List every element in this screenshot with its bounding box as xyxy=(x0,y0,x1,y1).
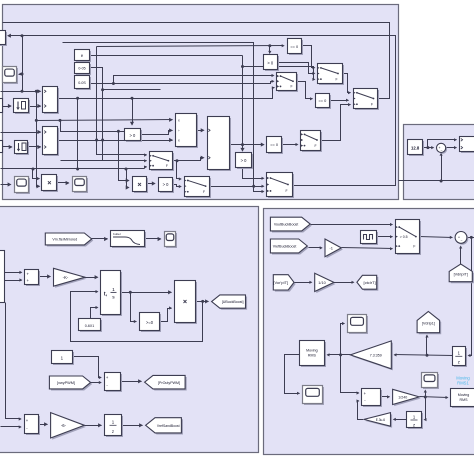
svg-text:F: F xyxy=(203,190,205,194)
svg-text:F: F xyxy=(413,244,415,248)
svg-text:F: F xyxy=(285,189,287,193)
svg-text:−: − xyxy=(461,239,463,243)
svg-text:RMS: RMS xyxy=(308,354,317,358)
svg-text:> 0: > 0 xyxy=(163,182,170,187)
svg-text:VrefSandBoost: VrefSandBoost xyxy=(157,424,180,428)
svg-text:F: F xyxy=(290,85,292,89)
svg-text:RMS: RMS xyxy=(460,398,469,402)
svg-text:butter: butter xyxy=(113,232,121,236)
svg-text:÷: ÷ xyxy=(178,129,180,133)
svg-text:>=0: >=0 xyxy=(146,320,154,325)
svg-text:> 0: > 0 xyxy=(129,133,136,138)
svg-text:1: 1 xyxy=(112,287,115,293)
svg-text:12.8: 12.8 xyxy=(411,146,420,151)
svg-text:1/10: 1/10 xyxy=(318,281,325,285)
svg-text:[xwyPWM]: [xwyPWM] xyxy=(57,381,75,385)
svg-text:-K-: -K- xyxy=(63,275,69,280)
svg-text:VoutBuckBoost: VoutBuckBoost xyxy=(274,223,298,227)
svg-text:> 0: > 0 xyxy=(267,60,274,65)
svg-text:F: F xyxy=(335,77,337,81)
svg-text:RMS1: RMS1 xyxy=(457,381,469,386)
svg-text:[UBuckBoost]: [UBuckBoost] xyxy=(222,300,244,304)
svg-text:Moving: Moving xyxy=(458,393,470,397)
svg-text:z: z xyxy=(413,422,415,427)
svg-text:z: z xyxy=(112,429,114,434)
svg-text:> 0.5: > 0.5 xyxy=(400,235,408,239)
svg-text:Moving: Moving xyxy=(306,349,318,353)
svg-text:0-05: 0-05 xyxy=(78,67,85,71)
svg-text:E.3u-6: E.3u-6 xyxy=(376,418,386,422)
svg-text:== 0: == 0 xyxy=(319,98,328,103)
svg-text:> 0: > 0 xyxy=(241,158,248,163)
svg-text:Vm.fterMirrored: Vm.fterMirrored xyxy=(52,238,77,242)
svg-text:x: x xyxy=(178,118,180,122)
svg-text:F: F xyxy=(371,102,373,106)
svg-text:F: F xyxy=(314,144,316,148)
svg-text:== 0: == 0 xyxy=(270,142,279,147)
svg-text:[PrOutyPWM]: [PrOutyPWM] xyxy=(158,381,180,385)
svg-text:1/240: 1/240 xyxy=(398,396,407,400)
svg-text:-6-: -6- xyxy=(61,423,67,428)
svg-text:F: F xyxy=(166,164,168,168)
svg-text:−: − xyxy=(441,148,443,152)
svg-text:7.3:359: 7.3:359 xyxy=(370,353,382,357)
svg-text:[VdripIT]: [VdripIT] xyxy=(454,272,468,276)
svg-text:VrefBuckBoost: VrefBuckBoost xyxy=(273,245,297,249)
svg-text:[Vor'pIT]: [Vor'pIT] xyxy=(273,280,288,285)
svg-text:z: z xyxy=(458,360,460,365)
svg-text:[Vdrip1]: [Vdrip1] xyxy=(422,322,435,326)
svg-text:[ctcIrT]: [ctcIrT] xyxy=(363,280,375,285)
svg-text:t,: t, xyxy=(104,292,108,298)
svg-text:x: x xyxy=(178,139,180,143)
svg-text:== 0: == 0 xyxy=(290,44,299,49)
svg-text:0-0S: 0-0S xyxy=(78,81,86,85)
svg-text:0-6X1: 0-6X1 xyxy=(85,324,95,328)
